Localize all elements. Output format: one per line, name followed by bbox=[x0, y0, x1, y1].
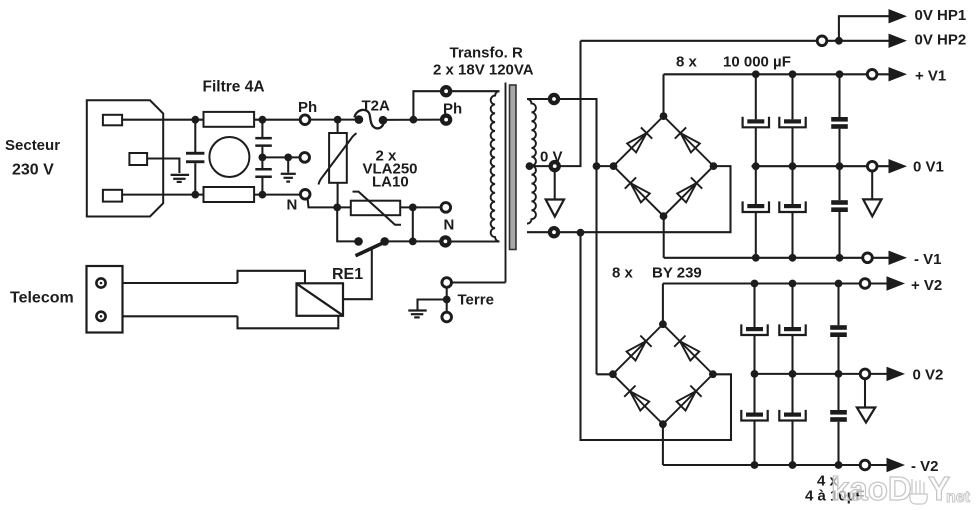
node filter in L bbox=[191, 116, 199, 124]
wire filter right cap branch bbox=[261, 120, 263, 137]
svg-text:Ph: Ph bbox=[443, 101, 462, 118]
svg-text:Ph: Ph bbox=[298, 99, 317, 116]
wire plug L pin to filter bbox=[122, 119, 204, 121]
relay RE1 coil bbox=[297, 283, 344, 316]
wire secondary bottom end to bridge D1 right vertex bbox=[554, 166, 731, 232]
varistor RV1 (vertical) bbox=[319, 133, 357, 185]
node AC2 tap bbox=[577, 229, 585, 237]
node +V1 c1 bbox=[752, 70, 760, 78]
wire filter bottom out to N terminal bbox=[254, 194, 305, 196]
node -V1 c1 bbox=[752, 254, 760, 262]
capacitor C3a (film) bbox=[831, 117, 848, 122]
node -V1 c3 bbox=[836, 254, 844, 262]
output arrow 0V HP2 bbox=[889, 34, 908, 48]
choke core circle (Filtre) bbox=[209, 137, 249, 177]
inductor L1 (filter top) bbox=[204, 112, 255, 127]
capacitor column C1 x=755.8 bbox=[755, 74, 757, 119]
node RV1 bottom bbox=[333, 204, 341, 212]
diode D1d bbox=[677, 183, 696, 202]
node 0V1 c2 bbox=[789, 162, 797, 170]
wire plug N pin to filter bbox=[122, 194, 204, 196]
earth ground (filter mid) bbox=[281, 174, 296, 182]
wire AC2 drop to bridge D2 right vertex bbox=[581, 233, 732, 440]
node B2 minus bbox=[659, 420, 667, 428]
relay RE1 contact bbox=[354, 237, 389, 256]
mains plug outline (Secteur) bbox=[87, 100, 163, 216]
wire Terre ground branch bbox=[418, 300, 447, 310]
node 0V2 c2 bbox=[789, 370, 797, 378]
wire telecom cable outline bottom bbox=[238, 316, 339, 329]
capacitor column C6 x=838.5 bbox=[837, 284, 839, 326]
terminal secondary top (coss) bbox=[548, 93, 560, 105]
node +V1 c3 bbox=[836, 70, 844, 78]
wire 0V HP2 rail bbox=[581, 40, 889, 42]
terminal -V2 (open) bbox=[860, 460, 870, 470]
watermark kaoDIY.net bbox=[831, 470, 971, 507]
svg-text:Filtre 4A: Filtre 4A bbox=[203, 79, 265, 96]
capacitor C4b (electrolytic) bbox=[746, 413, 763, 417]
wire -V1 rail bbox=[664, 257, 889, 259]
wire bridge D2 plus riser bbox=[662, 284, 664, 325]
earth ground (Terre) bbox=[408, 311, 426, 318]
capacitor CY2 plates (filter right bottom) bbox=[255, 168, 271, 171]
capacitor column C5 x=792.5 bbox=[791, 284, 793, 328]
node N branch bbox=[409, 204, 417, 212]
capacitor CY1 plates (filter right top) bbox=[255, 137, 271, 140]
output arrow -V1 bbox=[889, 251, 908, 265]
svg-text:8 x: 8 x bbox=[676, 54, 698, 71]
node -V2 c1 bbox=[751, 461, 759, 469]
wire AC1 to bridge D1 left vertex bbox=[597, 165, 614, 167]
node Ph branch bbox=[410, 116, 418, 124]
capacitor C3b (film) bbox=[831, 200, 848, 205]
node filter in N bbox=[191, 191, 199, 199]
svg-text:230 V: 230 V bbox=[12, 162, 54, 179]
wire -V2 rail bbox=[663, 464, 887, 466]
wire +V1 rail bbox=[664, 73, 889, 75]
wire Ph line filter to fuse bbox=[305, 119, 360, 121]
transformer TR secondary winding bbox=[527, 99, 536, 224]
plug pin earth bbox=[129, 153, 147, 165]
node B1 ac-l bbox=[610, 162, 618, 170]
node +V2 c1 bbox=[751, 280, 759, 288]
node B1 plus bbox=[660, 112, 668, 120]
svg-text:Transfo. R: Transfo. R bbox=[450, 45, 524, 62]
terminal -V1 (open) bbox=[863, 253, 873, 263]
capacitor column C2 x=792.5 bbox=[791, 74, 793, 119]
terminal +V1 (open) bbox=[867, 70, 877, 80]
plug pin N bbox=[103, 190, 122, 202]
svg-text:T2A: T2A bbox=[362, 98, 391, 115]
terminal 0V1 (open) bbox=[867, 161, 877, 171]
wire bridge D1 plus riser bbox=[662, 74, 664, 116]
terminal Terre a (open) bbox=[442, 278, 452, 288]
terminal 0V HP2 (open) bbox=[817, 36, 827, 46]
wire filter left cap branch bbox=[194, 120, 196, 152]
earth ground (plug pin) bbox=[171, 175, 190, 182]
svg-text:BY 239: BY 239 bbox=[652, 265, 702, 282]
svg-text:LA10: LA10 bbox=[372, 174, 409, 191]
capacitor C5b (electrolytic) bbox=[784, 413, 801, 417]
wire N terminal feed bbox=[440, 206, 446, 208]
diode D1a bbox=[627, 133, 646, 152]
transformer TR primary winding bbox=[491, 91, 500, 241]
ground triangle (0V2) bbox=[857, 408, 875, 423]
wire varistor RV1 bottom lead bbox=[337, 183, 339, 208]
capacitor C5a (electrolytic) bbox=[784, 327, 801, 331]
svg-text:RE1: RE1 bbox=[332, 266, 363, 283]
svg-text:Secteur: Secteur bbox=[5, 137, 60, 154]
node 0V2 c3 bbox=[835, 370, 843, 378]
wire bridge D2 minus drop bbox=[662, 424, 664, 465]
wire plug earth pin bbox=[147, 159, 179, 174]
capacitor C4a (electrolytic) bbox=[746, 327, 763, 331]
wire secondary center tap stub bbox=[530, 165, 555, 167]
terminal Terre b (open) bbox=[442, 312, 452, 322]
svg-text:0 V: 0 V bbox=[540, 149, 563, 166]
diode D2d bbox=[677, 391, 696, 410]
diode D2a bbox=[627, 341, 646, 360]
terminal N primary (coss) bbox=[439, 235, 451, 247]
capacitor column C4 x=754.5 bbox=[753, 284, 755, 328]
terminal Ph primary (coss) bbox=[440, 113, 452, 125]
bridge rectifier B1 bbox=[614, 116, 714, 216]
capacitor column C3 x=839.5 bbox=[838, 74, 840, 117]
svg-text:+ V2: + V2 bbox=[911, 277, 942, 294]
node RV1 top bbox=[334, 116, 342, 124]
wire center tap to 0V HP riser bbox=[555, 41, 581, 166]
svg-text:8 x: 8 x bbox=[612, 265, 634, 282]
capacitor C2a (electrolytic) bbox=[784, 119, 801, 123]
terminal N line (open) bbox=[441, 203, 451, 213]
wire filter top out to Ph terminal bbox=[254, 119, 305, 121]
wire N jog from filter N terminal bbox=[308, 198, 441, 208]
terminal N filter (open) bbox=[300, 190, 310, 200]
wire relay contact to primary N terminal bbox=[385, 240, 446, 242]
wire loop to relay contact left bbox=[337, 207, 358, 241]
wire telecom bottom bbox=[104, 315, 238, 317]
svg-text:- V1: - V1 bbox=[914, 251, 942, 268]
node filter mid bbox=[259, 154, 267, 162]
svg-text:kaoD: kaoD bbox=[831, 470, 912, 507]
wire filter mid to earth terminal bbox=[262, 156, 304, 158]
wire secondary top end to AC1 drop bbox=[554, 99, 597, 374]
varistor RV2 (horizontal) bbox=[351, 192, 401, 225]
wire AC1 to bridge D2 left vertex bbox=[597, 373, 613, 375]
svg-text:net: net bbox=[946, 489, 971, 506]
wire relay coil to armature linkage bbox=[343, 248, 372, 300]
wire 0V1 ground stub bbox=[871, 166, 873, 199]
node 0V2 c1 bbox=[751, 370, 759, 378]
terminal secondary bottom (coss) bbox=[548, 226, 560, 238]
ground triangle (0V1) bbox=[863, 199, 881, 216]
svg-text:N: N bbox=[287, 197, 298, 214]
node -V1 c2 bbox=[789, 254, 797, 262]
output arrow 0V2 bbox=[887, 367, 906, 381]
wire primary N terminal to winding bbox=[445, 240, 499, 242]
node AC1/B1 bbox=[593, 162, 601, 170]
wire secondary bottom stub bbox=[527, 231, 554, 233]
wire 0V2 rail bbox=[752, 373, 887, 375]
node -V2 c3 bbox=[835, 461, 843, 469]
ground triangle (center tap) bbox=[546, 200, 564, 217]
svg-text:0V HP2: 0V HP2 bbox=[915, 32, 967, 49]
diode D1c bbox=[631, 183, 650, 202]
node -V2 c2 bbox=[789, 461, 797, 469]
wire telecom cable outline top bbox=[238, 271, 306, 284]
wire Terre terminal pair vertical bbox=[446, 283, 448, 318]
capacitor C2b (electrolytic) bbox=[784, 204, 801, 208]
svg-text:Telecom: Telecom bbox=[10, 290, 74, 307]
plug pin L bbox=[103, 115, 122, 126]
node +V1 c2 bbox=[789, 70, 797, 78]
node filter out N bbox=[259, 191, 267, 199]
node 0V1 c3 bbox=[836, 162, 844, 170]
output arrow -V2 bbox=[887, 458, 906, 472]
output arrow +V2 bbox=[887, 276, 906, 290]
terminal +V2 (open) bbox=[860, 279, 870, 289]
svg-text:2 x 18V 120VA: 2 x 18V 120VA bbox=[433, 62, 534, 79]
svg-text:N: N bbox=[444, 217, 455, 234]
output arrow +V1 bbox=[889, 67, 908, 81]
wire telecom top bbox=[104, 282, 238, 284]
svg-text:10 000 µF: 10 000 µF bbox=[723, 54, 791, 71]
node B1 ac-r bbox=[710, 162, 718, 170]
transformer TR core screen line bbox=[505, 83, 507, 283]
terminal earth filter (open) bbox=[300, 153, 310, 163]
capacitor C6a (film) bbox=[830, 325, 847, 330]
node 0V1 c1 bbox=[752, 162, 760, 170]
node +V2 c3 bbox=[835, 280, 843, 288]
terminal Ph filter (open) bbox=[300, 115, 310, 125]
wire N drop to relay contact right bbox=[412, 207, 414, 241]
node filter out L bbox=[259, 116, 267, 124]
wire 0V2 ground stub bbox=[864, 374, 866, 407]
capacitor C1a (electrolytic) bbox=[747, 119, 764, 123]
node contact right bbox=[409, 238, 417, 246]
wire Ph line fuse to primary terminal bbox=[383, 119, 447, 121]
node B2 ac-l bbox=[609, 370, 617, 378]
terminal Ph primary top (coss) bbox=[440, 85, 452, 97]
terminal secondary 0V (coss) bbox=[549, 160, 561, 172]
terminal 0V2 (open) bbox=[860, 369, 870, 379]
wire 0V HP1 branch bbox=[839, 16, 889, 41]
fuse T2A bbox=[355, 110, 388, 128]
transformer TR core bar bbox=[510, 85, 517, 250]
node B1 minus bbox=[660, 212, 668, 220]
telecom connector J1 bbox=[87, 266, 123, 333]
capacitor C6b (film) bbox=[830, 410, 847, 415]
node HP branch bbox=[835, 37, 843, 45]
bridge rectifier B2 bbox=[613, 324, 713, 424]
svg-text:Terre: Terre bbox=[458, 292, 494, 309]
wire bridge D1 minus drop bbox=[663, 216, 665, 258]
wire Terre terminal to transformer screen bbox=[447, 281, 506, 283]
output arrow 0V HP1 bbox=[889, 9, 908, 23]
inductor L2 (filter bottom) bbox=[204, 187, 255, 202]
svg-text:0 V2: 0 V2 bbox=[913, 367, 944, 384]
node B2 plus bbox=[659, 320, 667, 328]
wire secondary top stub bbox=[527, 98, 554, 100]
node +V2 c2 bbox=[789, 280, 797, 288]
svg-text:0V HP1: 0V HP1 bbox=[915, 7, 967, 24]
node center tap bbox=[526, 162, 534, 170]
diode D1b bbox=[681, 133, 700, 152]
node B2 ac-r bbox=[709, 370, 717, 378]
svg-text:+ V1: + V1 bbox=[915, 67, 946, 84]
output arrow 0V1 bbox=[889, 159, 908, 173]
wire center tap ground stub bbox=[554, 166, 556, 199]
diode D2c bbox=[630, 391, 649, 410]
node Terre mid bbox=[443, 296, 451, 304]
wire +V2 rail bbox=[663, 282, 887, 284]
diode D2b bbox=[680, 341, 699, 360]
capacitor CX1 plates (filter left) bbox=[186, 152, 204, 155]
wire 0V1 rail bbox=[752, 165, 889, 167]
node filter earth bbox=[284, 154, 292, 162]
wire Ph branch up to primary top terminal bbox=[413, 91, 499, 119]
watermark hand glyph bbox=[910, 479, 928, 504]
svg-text:0 V1: 0 V1 bbox=[913, 159, 944, 176]
capacitor C1b (electrolytic) bbox=[747, 204, 764, 208]
wire varistor RV1 top lead bbox=[337, 120, 339, 133]
